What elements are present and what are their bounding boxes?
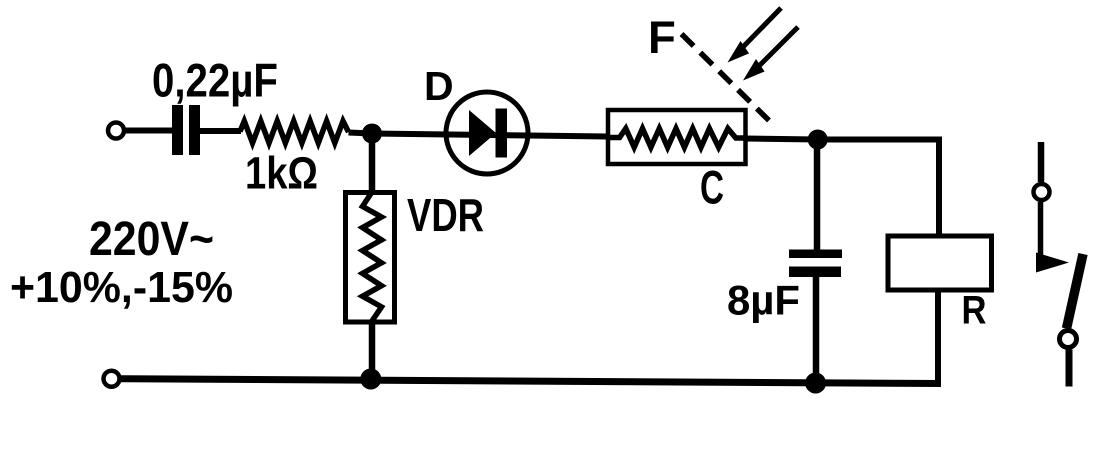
svg-text:F: F [648,12,676,63]
svg-text:+10%,-15%: +10%,-15% [10,263,233,312]
svg-text:R: R [962,289,987,333]
svg-text:C: C [700,162,724,215]
svg-text:220V~: 220V~ [89,212,214,266]
svg-text:1kΩ: 1kΩ [245,148,318,199]
svg-text:VDR: VDR [407,189,484,241]
svg-text:8µF: 8µF [727,277,800,324]
svg-text:0,22µF: 0,22µF [152,54,278,107]
svg-text:D: D [424,63,454,109]
